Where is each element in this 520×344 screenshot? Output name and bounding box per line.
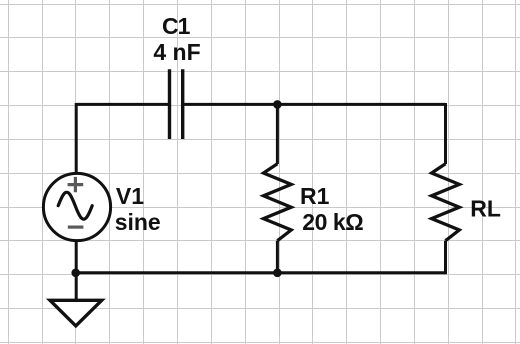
wire left vertical bottom (V1 to ground stub)	[75, 240, 78, 300]
resistor R1	[264, 164, 292, 241]
junction node top (R1 top)	[273, 100, 282, 109]
svg-text:RL: RL	[470, 196, 501, 222]
svg-text:4 nF: 4 nF	[153, 39, 200, 65]
wire top horizontal left segment (to C1 left plate)	[76, 103, 168, 106]
wire middle vertical bottom lead of R1	[276, 241, 279, 273]
resistor RL	[432, 164, 460, 241]
junction node bottom (R1 bottom)	[273, 269, 282, 278]
capacitor C1	[170, 69, 183, 139]
svg-text:20 kΩ: 20 kΩ	[302, 209, 363, 235]
wire top horizontal right segment (C1 right plate to right)	[184, 103, 445, 106]
voltage source V1 (sine)	[43, 173, 110, 240]
junction node ground	[71, 269, 80, 278]
svg-text:sine: sine	[115, 209, 161, 235]
svg-text:R1: R1	[300, 183, 330, 209]
wire right vertical bottom lead of RL	[444, 241, 447, 275]
wire right vertical top lead of RL	[444, 103, 447, 164]
wire bottom horizontal	[76, 271, 446, 274]
minus mark	[68, 226, 84, 229]
svg-text:V1: V1	[116, 183, 144, 209]
ground	[50, 300, 102, 326]
wire middle vertical top lead of R1	[276, 103, 279, 164]
wire left vertical top (top wire to V1)	[75, 103, 78, 174]
svg-text:C1: C1	[162, 13, 191, 39]
plus mark	[68, 177, 84, 192]
